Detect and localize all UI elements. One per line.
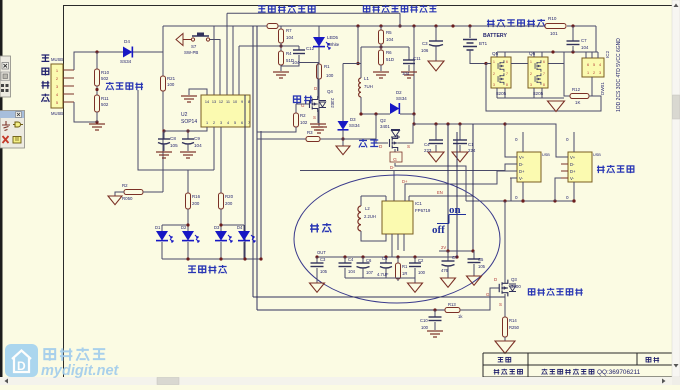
wire cross run xyxy=(300,170,394,172)
svg-text:Q2: Q2 xyxy=(380,118,386,123)
svg-text:R20: R20 xyxy=(225,194,234,199)
resistor R10 xyxy=(96,52,98,69)
svg-text:IC1: IC1 xyxy=(415,201,422,206)
right scrollbar xyxy=(672,0,680,377)
svg-text:Q3: Q3 xyxy=(511,277,517,282)
svg-text:13: 13 xyxy=(212,100,216,104)
svg-text:1: 1 xyxy=(587,71,589,75)
svg-text:3: 3 xyxy=(493,83,495,87)
svg-text:6: 6 xyxy=(241,121,243,125)
vertical label charge input xyxy=(41,55,49,61)
resistor R16 xyxy=(187,170,189,193)
svg-text:1R: 1R xyxy=(402,271,407,276)
transistor Q3 3400 xyxy=(499,280,508,297)
watermark site name xyxy=(44,349,55,361)
svg-text:D: D xyxy=(494,277,497,282)
svg-text:Q4: Q4 xyxy=(327,89,333,94)
svg-text:2.2UH: 2.2UH xyxy=(364,214,376,219)
wire L1 to D2 anode xyxy=(361,97,390,114)
svg-text:476: 476 xyxy=(441,268,449,273)
svg-text:104: 104 xyxy=(292,60,300,65)
wire Q3 source xyxy=(504,294,506,317)
ground R1 xyxy=(311,127,327,133)
capacitor C9 xyxy=(187,131,189,139)
svg-text:10: 10 xyxy=(233,100,237,104)
connector USB2 xyxy=(568,152,592,182)
svg-text:V+: V+ xyxy=(570,155,576,160)
ground Q4 xyxy=(310,124,326,130)
svg-text:R16: R16 xyxy=(192,194,201,199)
wire DW01 top pins xyxy=(585,52,587,58)
capacitor C5 xyxy=(384,255,387,258)
svg-text:R050: R050 xyxy=(122,196,133,201)
svg-text:104: 104 xyxy=(581,45,589,50)
svg-text:R13: R13 xyxy=(448,302,456,307)
wire usb2 V- xyxy=(555,178,561,201)
svg-text:100: 100 xyxy=(418,270,426,275)
svg-text:107: 107 xyxy=(366,270,374,275)
svg-text:DW01: DW01 xyxy=(600,82,605,95)
ground left indicator xyxy=(108,196,122,205)
svg-text:C5: C5 xyxy=(382,256,388,261)
wire Q2 source xyxy=(398,124,413,143)
wire Q6 right xyxy=(548,63,564,65)
svg-text:3: 3 xyxy=(599,71,601,75)
svg-text:R3: R3 xyxy=(307,130,313,135)
wire R6 bottom ground xyxy=(380,65,382,71)
svg-text:104: 104 xyxy=(286,35,294,40)
svg-text:3401: 3401 xyxy=(380,124,390,129)
wire R13 to Q3 gate xyxy=(460,288,499,310)
wire H1 right drop xyxy=(595,26,597,52)
svg-text:G: G xyxy=(393,157,397,163)
wire divider tap to U2 xyxy=(239,45,281,47)
svg-text:D+: D+ xyxy=(519,169,525,174)
svg-text:223: 223 xyxy=(424,148,432,153)
label charge detect xyxy=(106,82,114,90)
op-amp IC2 DW01 xyxy=(582,58,604,77)
wire DW01 bottom pin xyxy=(591,77,593,96)
svg-text:SS34: SS34 xyxy=(349,123,360,128)
wire D3 cathode xyxy=(342,130,344,146)
wire bundle vertical D xyxy=(244,95,246,259)
floating toolbar 1 xyxy=(0,56,11,97)
wire R14 ground xyxy=(504,337,506,341)
pin 2 of J1 xyxy=(63,77,74,79)
svg-text:105: 105 xyxy=(320,269,328,274)
svg-text:7UH: 7UH xyxy=(364,84,373,89)
wire bundle vertical B xyxy=(256,26,258,310)
label boost xyxy=(310,224,319,233)
svg-text:6: 6 xyxy=(587,63,589,67)
capacitor C1a xyxy=(458,122,461,125)
diode D2 xyxy=(390,103,399,114)
ground C1a xyxy=(452,152,468,162)
section title: battery protection circuit xyxy=(487,19,495,27)
svg-text:D-: D- xyxy=(519,162,524,167)
ground C11 xyxy=(401,72,417,78)
svg-text:R21: R21 xyxy=(167,76,176,81)
wire bottom bus B xyxy=(257,309,445,311)
svg-text:C3: C3 xyxy=(422,41,428,46)
wire charge detect sense xyxy=(138,90,214,170)
LED D2 xyxy=(187,225,189,231)
svg-text:D3: D3 xyxy=(350,117,356,122)
ground out caps xyxy=(408,283,423,292)
resistor R1 xyxy=(318,47,320,64)
capacitor C8 xyxy=(162,129,165,132)
LED D4 xyxy=(243,225,245,231)
wire usb data D+ xyxy=(405,171,517,201)
svg-text:104: 104 xyxy=(194,143,202,148)
svg-text:R7: R7 xyxy=(286,28,292,33)
svg-text:USB: USB xyxy=(593,153,601,157)
svg-text:C7: C7 xyxy=(452,255,458,260)
wire caps common ground xyxy=(345,277,415,279)
wire Q5 to Q6 xyxy=(511,63,528,65)
resistor R4 xyxy=(280,43,282,51)
connector J1 charge input xyxy=(51,64,63,108)
wire J1 pin5 down to ground xyxy=(74,102,97,122)
svg-text:R11: R11 xyxy=(101,96,109,101)
svg-text:SW-PB: SW-PB xyxy=(184,50,198,55)
ground C4a xyxy=(428,152,444,162)
resistor R12 xyxy=(570,94,589,99)
svg-text:C7: C7 xyxy=(581,38,587,43)
svg-text:R2: R2 xyxy=(122,183,128,188)
svg-text:4: 4 xyxy=(599,63,601,67)
svg-text:0: 0 xyxy=(515,195,518,200)
resistor R3 xyxy=(306,137,320,142)
svg-text:C2: C2 xyxy=(418,258,424,263)
wire Q3 drain xyxy=(504,201,506,283)
svg-text:51D: 51D xyxy=(386,57,394,62)
svg-text:1K: 1K xyxy=(575,100,580,105)
svg-text:C10: C10 xyxy=(420,318,428,323)
port G of Q2 xyxy=(394,149,396,152)
svg-text:MUSB: MUSB xyxy=(51,57,63,62)
svg-text:D2: D2 xyxy=(181,225,187,230)
wire bundle vertical A xyxy=(252,26,254,297)
resistor R11 xyxy=(96,86,98,95)
svg-text:U2: U2 xyxy=(181,112,188,118)
wire indicator top segments xyxy=(162,224,188,226)
svg-text:C6: C6 xyxy=(366,258,372,263)
svg-text:D+: D+ xyxy=(570,169,576,174)
resistor R21 xyxy=(161,76,166,91)
svg-text:USB: USB xyxy=(542,153,550,157)
wire H3 drop xyxy=(399,13,401,26)
svg-text:100: 100 xyxy=(167,82,175,87)
ground C5b xyxy=(467,276,482,285)
wire D2 top feed xyxy=(412,24,415,27)
op-amp IC1 FP6719 xyxy=(382,201,413,234)
svg-text:104: 104 xyxy=(402,71,410,76)
svg-text:LED5: LED5 xyxy=(327,35,339,40)
svg-text:105: 105 xyxy=(170,143,178,148)
transistor pack Q6 8205 xyxy=(528,57,548,88)
svg-text:R12: R12 xyxy=(572,87,581,92)
svg-text:4.7UF: 4.7UF xyxy=(377,272,389,277)
svg-text:502: 502 xyxy=(101,76,109,81)
sheet border top xyxy=(63,5,672,7)
svg-text:D4: D4 xyxy=(124,39,130,44)
svg-text:4: 4 xyxy=(227,121,229,125)
svg-text:C8: C8 xyxy=(170,136,176,141)
LED D1 xyxy=(161,225,163,231)
wire D2 branch down xyxy=(413,114,415,124)
wire 2V bus xyxy=(439,250,473,252)
svg-text:D-: D- xyxy=(570,162,575,167)
wire sense rail xyxy=(564,52,570,96)
svg-text:C4: C4 xyxy=(424,142,430,147)
label boost output xyxy=(597,165,605,173)
section title: charge & low voltage detection xyxy=(363,6,369,13)
svg-text:QQ:369706211: QQ:369706211 xyxy=(597,369,641,376)
junction divider bottom xyxy=(95,120,98,123)
capacitor C5b xyxy=(438,250,440,252)
svg-text:0: 0 xyxy=(515,137,518,142)
wire VIN drop xyxy=(456,132,458,257)
ground protection xyxy=(548,101,565,112)
capacitor C7b xyxy=(447,251,449,261)
svg-text:SOP14: SOP14 xyxy=(181,119,197,125)
svg-text:104: 104 xyxy=(386,37,394,42)
svg-text:R5: R5 xyxy=(386,30,392,35)
wire USB2 shield top xyxy=(573,132,575,152)
resistor R7 xyxy=(280,26,282,29)
resistor R1b xyxy=(396,255,399,258)
svg-text:R250: R250 xyxy=(509,325,520,330)
resistor R2b xyxy=(296,103,309,105)
svg-text:V-: V- xyxy=(570,176,575,181)
bottom scrollbar xyxy=(0,377,680,385)
svg-text:6: 6 xyxy=(506,60,508,64)
pin 1 of J1 xyxy=(63,69,74,71)
svg-text:2: 2 xyxy=(530,72,532,76)
resistor R14 xyxy=(503,317,508,337)
wire battery to Q5 xyxy=(486,63,491,65)
svg-text:200: 200 xyxy=(225,201,233,206)
svg-text:R4: R4 xyxy=(286,51,292,56)
svg-text:V-: V- xyxy=(519,176,524,181)
title block xyxy=(483,353,680,377)
resistor R2 R050 xyxy=(124,190,143,195)
svg-text:6: 6 xyxy=(543,60,545,64)
svg-text:12: 12 xyxy=(219,100,223,104)
svg-text:D3: D3 xyxy=(214,225,220,230)
LED LED5 xyxy=(318,26,320,37)
svg-text:3: 3 xyxy=(530,83,532,87)
wire Q2 drain rail xyxy=(374,112,377,115)
svg-text:R2: R2 xyxy=(300,113,306,118)
wire usb1 V- xyxy=(511,178,517,201)
wire top bus H1 xyxy=(163,25,544,27)
pin 3 of J1 xyxy=(63,85,74,87)
svg-text:1OD 2CS 3OC 4TD 5VCC 6GND: 1OD 2CS 3OC 4TD 5VCC 6GND xyxy=(616,38,622,112)
wire left rail xyxy=(162,26,164,76)
inductor L1 xyxy=(358,63,361,65)
floating toolbar 2 xyxy=(0,111,25,149)
svg-text:C3: C3 xyxy=(320,257,326,262)
junction divider mid xyxy=(95,88,98,91)
svg-text:8: 8 xyxy=(248,100,250,104)
pin 4 of J1 xyxy=(63,93,74,95)
svg-text:R1: R1 xyxy=(402,264,408,269)
capacitor C3 top xyxy=(434,24,437,27)
wire outer loop xyxy=(486,64,601,112)
svg-text:MUSB: MUSB xyxy=(51,111,63,116)
svg-text:5: 5 xyxy=(234,121,236,125)
ground D3 xyxy=(336,146,350,155)
svg-text:8: 8 xyxy=(506,83,508,87)
svg-text:R14: R14 xyxy=(509,318,517,323)
capacitor C4a xyxy=(434,122,437,125)
svg-text:D+: D+ xyxy=(402,179,408,184)
wire R4 bottom xyxy=(280,65,282,71)
resistor R13 xyxy=(445,308,460,313)
ground R4 xyxy=(273,72,289,78)
wire Q4 source to ground xyxy=(317,110,319,123)
svg-text:C11: C11 xyxy=(413,56,421,61)
svg-text:C9: C9 xyxy=(194,136,200,141)
transistor pack Q5 8205 xyxy=(491,57,511,88)
ground C10 xyxy=(427,331,443,337)
svg-text:3: 3 xyxy=(220,121,222,125)
wire 2V rail drop xyxy=(472,124,474,251)
svg-text:off: off xyxy=(432,224,445,236)
svg-text:S: S xyxy=(499,302,502,307)
capacitor C3b xyxy=(315,255,318,258)
wire C3 stem xyxy=(435,26,437,41)
junction input top xyxy=(95,50,98,53)
capacitor C12 xyxy=(280,45,282,47)
op-amp U2 SOP14 xyxy=(201,95,250,127)
svg-text:0: 0 xyxy=(566,195,569,200)
capacitor C11 xyxy=(361,46,409,48)
wire U2 pin rails bottom xyxy=(213,127,215,170)
ground C3b xyxy=(310,283,325,292)
wire D2 cathode xyxy=(400,113,414,115)
svg-text:200: 200 xyxy=(192,201,200,206)
wire S7 to U2 xyxy=(210,40,220,96)
svg-text:V+: V+ xyxy=(519,155,525,160)
wire to D3 xyxy=(356,62,359,65)
svg-text:1: 1 xyxy=(206,121,208,125)
svg-text:7: 7 xyxy=(543,72,545,76)
wire top bus H3 xyxy=(227,12,400,14)
resistor R5 xyxy=(379,24,382,27)
svg-text:D: D xyxy=(314,86,317,91)
highlight ellipse boost xyxy=(294,175,500,303)
section title: boost voltage detection xyxy=(258,6,266,12)
wire Q4 drain stub xyxy=(299,63,318,99)
ground C3 xyxy=(428,61,444,71)
wire usb data D- xyxy=(394,164,517,201)
watermark logo xyxy=(5,344,120,379)
label battery level xyxy=(188,266,196,273)
wire USB1 shield top xyxy=(522,132,524,152)
svg-text:mydigit.net: mydigit.net xyxy=(41,363,120,379)
svg-text:11: 11 xyxy=(226,100,230,104)
svg-text:R10: R10 xyxy=(101,70,110,75)
wire Q2 gate run xyxy=(395,163,466,201)
svg-text:106: 106 xyxy=(421,48,429,53)
svg-text:D-: D- xyxy=(390,165,395,170)
diode D4 xyxy=(123,47,132,58)
wire charge sense row xyxy=(257,138,306,140)
svg-text:224: 224 xyxy=(468,148,476,153)
capacitor C7 xyxy=(571,24,574,27)
svg-text:102: 102 xyxy=(300,120,308,125)
svg-text:S: S xyxy=(313,115,316,120)
wire IC1 EN xyxy=(408,196,410,201)
svg-text:FP6719: FP6719 xyxy=(415,208,431,213)
svg-text:1: 1 xyxy=(530,60,532,64)
wire U2 top pin feeds xyxy=(213,26,215,95)
wire U2 ground jog xyxy=(189,89,207,95)
svg-text:2: 2 xyxy=(213,121,215,125)
svg-text:7: 7 xyxy=(248,121,250,125)
label flashlight xyxy=(294,96,301,104)
wire USB1 shield bottom xyxy=(522,182,524,201)
svg-text:L1: L1 xyxy=(364,76,369,81)
svg-text:D4: D4 xyxy=(237,225,243,230)
svg-text:White: White xyxy=(328,42,340,47)
svg-text:2: 2 xyxy=(593,71,595,75)
svg-text:105: 105 xyxy=(478,264,486,269)
wire tap to L1 xyxy=(360,47,362,64)
pin 5 of J1 xyxy=(63,101,74,103)
left window edge xyxy=(0,0,3,377)
svg-text:L2: L2 xyxy=(365,206,370,211)
toolbar icon delete xyxy=(3,136,9,143)
svg-text:OUT: OUT xyxy=(317,250,326,255)
svg-text:IC2: IC2 xyxy=(605,50,610,58)
wire usb1 V+ feed xyxy=(505,124,517,157)
wire charge bus xyxy=(414,123,505,125)
resistor R6 xyxy=(380,44,382,50)
capacitor C6 xyxy=(361,255,364,258)
ground C7b xyxy=(441,278,456,287)
svg-text:2302: 2302 xyxy=(330,98,335,108)
svg-text:14: 14 xyxy=(205,100,209,104)
toolbar icon gate xyxy=(13,122,23,127)
resistor R20 xyxy=(220,127,222,193)
ground R14 xyxy=(495,341,515,353)
transistor Q4 2302 xyxy=(310,96,318,112)
svg-text:D2: D2 xyxy=(396,90,402,95)
ground U2 xyxy=(181,96,197,102)
inductor L2 xyxy=(361,195,386,197)
wire 2V feed xyxy=(446,122,449,125)
svg-text:8: 8 xyxy=(543,83,545,87)
wire R1 to ground xyxy=(318,79,320,126)
svg-text:R1: R1 xyxy=(324,64,330,69)
toolbar icon part xyxy=(13,137,21,144)
fuse F1 on bus xyxy=(267,24,278,29)
wire protection bottom row xyxy=(496,88,498,98)
battery BT1 xyxy=(468,24,471,27)
svg-text:BATTERY: BATTERY xyxy=(483,33,507,39)
svg-text:2: 2 xyxy=(493,72,495,76)
wire bundle vertical C xyxy=(260,131,262,259)
junction H1 xyxy=(451,24,454,27)
transistor Q2 3401 xyxy=(390,135,398,151)
label charge xyxy=(359,139,367,148)
diode D3 xyxy=(338,121,349,130)
wire LED junction xyxy=(356,24,359,27)
